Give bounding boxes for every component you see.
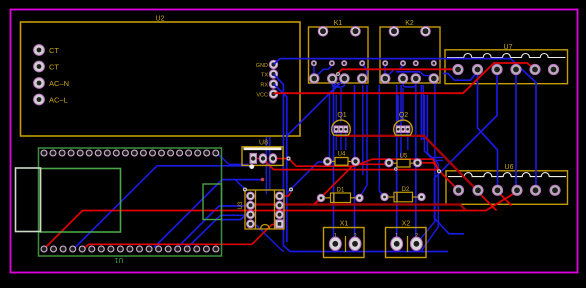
U1 top pad row bbox=[41, 150, 219, 156]
terminal X1 bbox=[324, 221, 365, 258]
wire blue verticals x421 x423 bbox=[420, 85, 422, 140]
wire U1 blue horizontal bbox=[220, 215, 246, 219]
wire red spur U6 pad3 down bbox=[498, 192, 512, 206]
resistor U5 bbox=[385, 153, 422, 167]
relay K1 bbox=[309, 20, 369, 83]
wire blue vertical x436 bbox=[421, 95, 438, 251]
via near K1 bbox=[336, 72, 340, 76]
K1 bottom pads bbox=[309, 74, 367, 84]
wire U1 blue diag 2 bbox=[154, 180, 262, 248]
wire Q1 pads up bbox=[335, 95, 337, 122]
K2 middle small pads bbox=[383, 61, 437, 66]
wire U1 top pad20 diagonal to U8 bbox=[217, 153, 248, 164]
K1 middle small pads bbox=[311, 61, 365, 66]
wire blue vertical to X1 pad1 bbox=[334, 83, 337, 244]
wire blue pair right of K2 bbox=[424, 95, 443, 158]
wire Q2 pad links bbox=[397, 95, 399, 122]
U8 silk dot bbox=[249, 164, 254, 169]
U2 pad AC-N bbox=[34, 78, 69, 89]
wire red long bottom: U1 pad to U6 pad4 bbox=[44, 192, 517, 250]
IC socket U3 bbox=[238, 190, 284, 229]
wire K1 internal blues bbox=[314, 66, 332, 79]
via near U8 bbox=[286, 156, 290, 160]
U2 pad VCC bbox=[256, 90, 277, 99]
wire GND net: U2.GND to U7/U6 area bbox=[274, 59, 537, 189]
wire blue vertical x367 bbox=[360, 85, 367, 197]
U2 pad CT (pin 1) bbox=[34, 45, 60, 56]
wire K1 long diagonal to RX vertical bbox=[287, 79, 345, 137]
svg-text:X2: X2 bbox=[402, 221, 411, 228]
wire red U8 pad3 to via bbox=[273, 158, 289, 160]
wire blue vertical x432 bbox=[416, 83, 435, 244]
svg-text:AC–L: AC–L bbox=[49, 95, 68, 104]
svg-text:RX: RX bbox=[260, 83, 268, 89]
diode D1 bbox=[317, 188, 363, 203]
svg-text:U2: U2 bbox=[156, 16, 165, 23]
wire blue vertical to X2 pad1 bbox=[396, 85, 398, 244]
K1 top pads bbox=[318, 27, 360, 37]
svg-text:U7: U7 bbox=[504, 44, 513, 51]
wire U7 pad3 long route to bottom bbox=[435, 70, 498, 234]
svg-text:D1: D1 bbox=[337, 188, 345, 194]
wire blue vertical x363 bbox=[362, 85, 364, 175]
wire blue pair through U8 bbox=[265, 137, 267, 194]
connector U2 bbox=[21, 16, 301, 137]
wire red bottom row U1 to U3 square pad bbox=[84, 225, 280, 250]
wire U7 pad2 to U6 pad3 bbox=[478, 71, 498, 189]
svg-text:K2: K2 bbox=[405, 20, 414, 27]
transistor Q2 bbox=[394, 112, 413, 135]
via red end of blue rail bbox=[261, 178, 265, 182]
svg-text:Q2: Q2 bbox=[399, 112, 408, 119]
wire U7 pad2 blue dip under pad1 bbox=[443, 71, 477, 80]
svg-text:U5: U5 bbox=[400, 153, 408, 159]
wire red parallel line at 207.5 bbox=[246, 205, 466, 211]
wire U1 blue diag pair to U3 bbox=[176, 206, 246, 249]
wire VCC net: U2.VCC to U7 pad5 bbox=[274, 63, 535, 94]
U8 pad 2 bbox=[259, 154, 267, 164]
svg-text:VCC: VCC bbox=[256, 93, 268, 99]
wire red D1 pad spur bbox=[314, 198, 321, 205]
wire TX net: U2.TX down to bottom rail bbox=[274, 74, 449, 252]
wire red spur U6 pad2 down bbox=[478, 192, 497, 211]
wire red diagonal to U5 left pad bbox=[315, 164, 385, 203]
wire red U5 right pad to via bbox=[418, 163, 440, 171]
U1 inner shield rect bbox=[41, 169, 121, 233]
component U8 bbox=[242, 140, 283, 166]
wire blue via diagonal top-left of U3 bbox=[235, 179, 245, 189]
U3 pin1 square pad bbox=[276, 220, 284, 228]
U2 pad GND bbox=[256, 60, 278, 69]
wire blue vertical to X2 pad2 bbox=[415, 85, 418, 244]
vias near U3 top bbox=[243, 188, 247, 192]
svg-text:U6: U6 bbox=[505, 164, 514, 171]
U2 pad TX bbox=[261, 70, 278, 79]
wire U3 to bottom blue diagonal bbox=[256, 225, 284, 252]
svg-text:U4: U4 bbox=[338, 152, 346, 158]
U6 pads bbox=[453, 185, 560, 195]
via left of U6 bbox=[437, 169, 441, 173]
wire red K1 via to U7 pad1 bbox=[338, 69, 458, 73]
wire K1 middle pads drop bbox=[313, 64, 315, 77]
svg-text:U8: U8 bbox=[259, 140, 268, 147]
U2 pad RX bbox=[260, 80, 277, 89]
svg-text:CT: CT bbox=[49, 62, 59, 71]
via right of U5 bbox=[394, 167, 397, 170]
diode D2 bbox=[381, 187, 425, 202]
terminal X2 bbox=[386, 221, 427, 258]
wire red Q1 to U6 pad2 (thick) bbox=[336, 136, 478, 191]
K2 top pads bbox=[389, 27, 430, 37]
svg-text:U3: U3 bbox=[238, 201, 244, 209]
svg-text:U1: U1 bbox=[114, 256, 123, 263]
connector U6 bbox=[446, 164, 568, 205]
wire red U8 pad1 to pad2 bbox=[255, 158, 263, 160]
U1 bottom pad row bbox=[41, 246, 219, 252]
U3 left pads bbox=[247, 192, 255, 228]
wire U7 pad4 to U6 pad4 bbox=[515, 70, 517, 189]
connector U7 bbox=[445, 44, 568, 84]
module U1 outline bbox=[39, 148, 222, 263]
U7 pads bbox=[453, 64, 559, 74]
svg-text:CT: CT bbox=[49, 46, 59, 55]
svg-text:K1: K1 bbox=[334, 20, 343, 27]
U8 pad 3 bbox=[269, 154, 277, 164]
wire RX net: U2.RX down bbox=[274, 84, 287, 242]
wire Q1 pad drops bbox=[335, 129, 337, 150]
wire blue vertical to X1 pad2 bbox=[354, 85, 357, 244]
U1 antenna courtyard (pale) bbox=[16, 168, 41, 232]
U2 pad AC-L bbox=[34, 94, 68, 105]
U2 pad CT (pin 2) bbox=[34, 61, 60, 72]
U3 right pads bbox=[276, 192, 284, 219]
svg-text:D2: D2 bbox=[402, 187, 410, 193]
wire K2 internal blues bbox=[385, 66, 403, 79]
svg-text:TX: TX bbox=[261, 73, 268, 79]
wire red U8 pad2 route bbox=[264, 160, 440, 172]
svg-text:Q1: Q1 bbox=[337, 112, 346, 119]
relay K2 bbox=[380, 20, 440, 83]
svg-text:AC–N: AC–N bbox=[49, 79, 69, 88]
wire red U3 pad to via spur bbox=[280, 192, 292, 196]
resistor U4 bbox=[323, 152, 359, 166]
U8 pad 1 (square) bbox=[250, 153, 257, 163]
wire blue vertical x401 bbox=[400, 85, 402, 160]
wire red via route to U6 pad1 bbox=[289, 159, 459, 191]
wire U1 blue diag 1 bbox=[74, 166, 252, 249]
U1 small green rect right bbox=[203, 184, 222, 220]
svg-text:GND: GND bbox=[256, 63, 268, 69]
K2 bottom pads bbox=[380, 74, 438, 84]
wire blue RX riser to U4 left pad bbox=[287, 162, 324, 193]
transistor Q1 bbox=[332, 112, 351, 135]
wire blue vertical to D2 bbox=[379, 85, 384, 197]
svg-text:X1: X1 bbox=[340, 221, 349, 228]
